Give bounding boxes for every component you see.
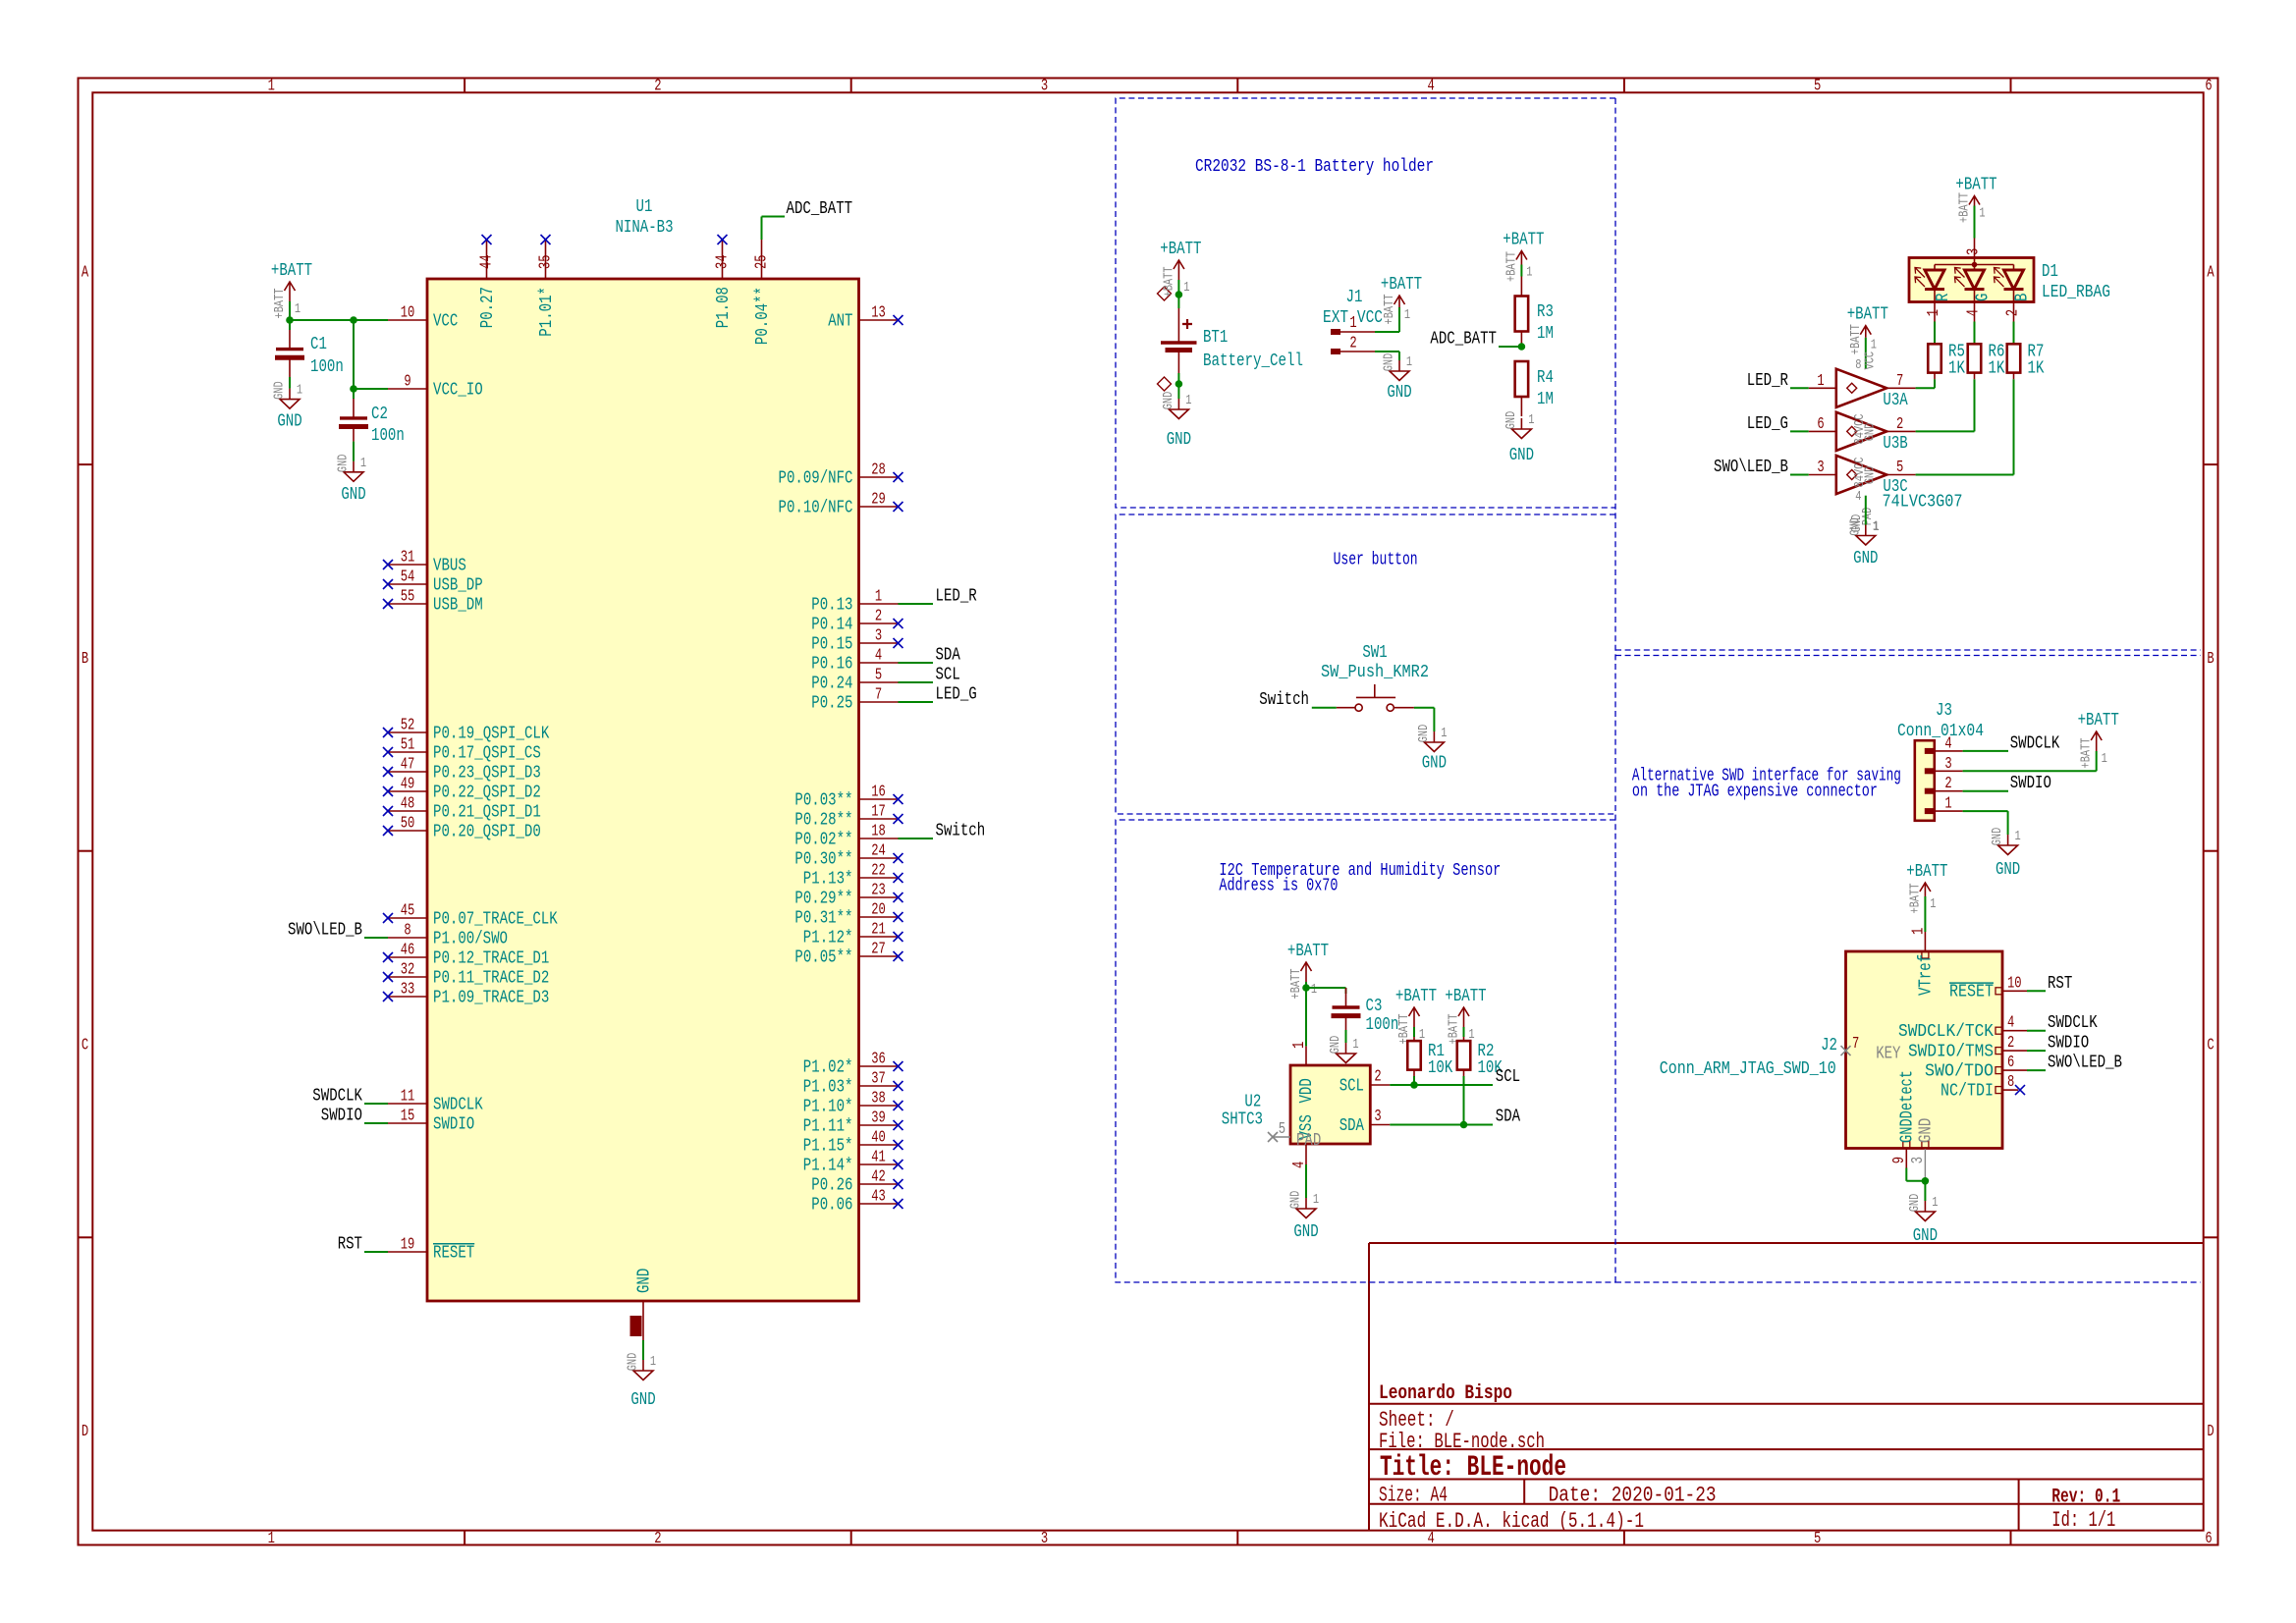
U1 pin 34 P1.08	[713, 235, 734, 328]
svg-text:42: 42	[871, 1167, 886, 1186]
wire C3 to ground	[1345, 1030, 1347, 1043]
svg-text:USB_DM: USB_DM	[433, 594, 483, 615]
ground symbol below U3	[1847, 517, 1879, 568]
U1 pin 16 P0.03**	[794, 783, 902, 811]
ground symbol below C3	[1328, 1036, 1359, 1063]
svg-text:LED_RBAG: LED_RBAG	[2042, 282, 2110, 302]
svg-text:P0.10/NFC: P0.10/NFC	[779, 497, 853, 517]
wire R1 to SCL	[1413, 1076, 1415, 1085]
svg-text:P0.02**: P0.02**	[794, 829, 852, 849]
U2 pin 5 PAD	[1268, 1119, 1321, 1151]
svg-text:1: 1	[2102, 751, 2107, 767]
U1 pin 27 P0.05**	[794, 940, 902, 968]
svg-text:2: 2	[1944, 774, 1951, 792]
wire SWDIO to pin 15	[364, 1122, 388, 1124]
svg-text:3: 3	[1964, 248, 1983, 255]
svg-text:37: 37	[871, 1069, 886, 1088]
svg-text:P1.08: P1.08	[713, 287, 734, 328]
svg-text:VDD: VDD	[1296, 1078, 1317, 1103]
svg-text:39: 39	[871, 1109, 886, 1127]
svg-text:LED_G: LED_G	[936, 684, 977, 705]
svg-text:SWDIO: SWDIO	[321, 1106, 362, 1126]
wire D1 cathode to resistor	[1934, 322, 1936, 345]
U1 pin 23 P0.29**	[794, 881, 902, 909]
svg-text:GND: GND	[1167, 429, 1191, 450]
U1 pin 1 P0.13	[811, 587, 898, 616]
svg-text:1: 1	[1817, 371, 1824, 390]
svg-text:1: 1	[1930, 896, 1936, 912]
wire +BATT to C3	[1306, 987, 1346, 989]
connector J2 Conn_ARM_JTAG_SWD_10 body	[1846, 951, 2003, 1149]
svg-text:ADC_BATT: ADC_BATT	[787, 198, 853, 219]
section box battery holder	[1116, 98, 1615, 508]
capacitor C1	[275, 330, 304, 377]
ground symbol below J2	[1907, 1194, 1939, 1246]
svg-text:GND: GND	[1387, 382, 1411, 403]
wire J3 pin2 SWDIO	[1963, 790, 2008, 792]
svg-text:1: 1	[650, 1354, 656, 1370]
svg-text:C: C	[82, 1036, 88, 1055]
svg-text:1: 1	[297, 383, 302, 399]
svg-text:+BATT: +BATT	[272, 289, 288, 319]
svg-text:R3: R3	[1537, 301, 1554, 322]
svg-text:51: 51	[401, 735, 415, 754]
svg-text:24: 24	[871, 841, 886, 860]
svg-text:G: G	[1973, 294, 1994, 301]
svg-text:D: D	[2207, 1422, 2214, 1440]
resistor R4 1M	[1515, 361, 1529, 416]
wire LED_G to U3B input	[1790, 430, 1809, 432]
J3 pin 4	[1925, 733, 1963, 754]
svg-text:6: 6	[2205, 1529, 2212, 1547]
svg-text:Title: BLE-node: Title: BLE-node	[1380, 1451, 1566, 1484]
U1 pin 24 P0.30**	[794, 841, 902, 870]
U1 pin 46 P0.12_TRACE_D1	[383, 941, 549, 969]
svg-text:5: 5	[1279, 1119, 1285, 1138]
svg-text:R: R	[1933, 294, 1953, 301]
svg-text:GND: GND	[1907, 1194, 1923, 1213]
svg-text:1: 1	[1313, 1192, 1319, 1208]
wire SWDCLK to pin 11	[364, 1103, 388, 1105]
U1 pin 4 P0.16	[811, 646, 898, 675]
svg-text:PAD: PAD	[1296, 1130, 1321, 1151]
svg-text:P1.00/SWO: P1.00/SWO	[433, 928, 508, 948]
svg-text:28: 28	[871, 460, 886, 479]
svg-text:U3A: U3A	[1883, 390, 1908, 410]
wire U1 GND pin to ground	[642, 1340, 644, 1360]
wire +BATT to VCC pin 10	[290, 319, 388, 321]
svg-text:C2: C2	[371, 404, 388, 424]
battery BT1 Battery_Cell	[1158, 287, 1197, 391]
U1 pin 49 P0.22_QSPI_D2	[383, 775, 541, 803]
resistor R7 1K	[2007, 344, 2021, 379]
D1 anode bus	[1935, 264, 2014, 266]
no-connect at J2 pin 8	[2015, 1085, 2025, 1095]
svg-text:3: 3	[1817, 458, 1824, 476]
svg-text:Date: 2020-01-23: Date: 2020-01-23	[1549, 1484, 1717, 1508]
junction at BT1 plus	[1175, 291, 1183, 298]
svg-text:11: 11	[401, 1087, 415, 1106]
svg-text:SWO\LED_B: SWO\LED_B	[288, 920, 362, 941]
U1 pin 47 P0.23_QSPI_D3	[383, 755, 541, 784]
svg-text:1M: 1M	[1537, 389, 1554, 409]
svg-text:100n: 100n	[371, 425, 405, 446]
power +BATT above BT1	[1160, 239, 1201, 298]
D1 LED element R	[1915, 265, 1953, 302]
svg-text:32: 32	[401, 960, 415, 979]
ground symbol below BT1	[1161, 392, 1192, 450]
U1 pin 15 SWDIO	[388, 1107, 474, 1135]
wire ADC_BATT from U1 pin 25	[761, 217, 763, 241]
J2 pin 7 KEY	[1841, 1034, 1901, 1063]
svg-text:6: 6	[2205, 77, 2212, 95]
wire VCC_IO junction to pin 9	[354, 388, 388, 390]
svg-text:6: 6	[2007, 1053, 2014, 1071]
wire C2 branch down	[353, 320, 355, 389]
svg-text:KEY: KEY	[1876, 1043, 1900, 1063]
svg-text:SW_Push_KMR2: SW_Push_KMR2	[1321, 662, 1429, 682]
svg-text:+BATT: +BATT	[1288, 969, 1304, 1000]
resistor R6 1K	[1968, 344, 1982, 379]
U1 pin 42 P0.26	[811, 1167, 902, 1196]
svg-text:RESET: RESET	[1949, 982, 1994, 1002]
U1 pin 25 P0.04**	[752, 240, 773, 345]
svg-text:1: 1	[360, 456, 366, 471]
section box user button	[1116, 514, 1615, 814]
svg-text:48: 48	[401, 794, 415, 813]
junction ADC_BATT divider	[1518, 343, 1526, 351]
J2 pin 9 GNDDetect	[1889, 1070, 1918, 1168]
svg-text:8: 8	[1855, 357, 1861, 373]
svg-text:+BATT: +BATT	[2078, 710, 2119, 730]
power +BATT above U2	[1287, 941, 1329, 1000]
svg-text:1: 1	[1441, 726, 1447, 741]
U1 pin 3 P0.15	[811, 626, 902, 655]
U1 pin 19 RESET	[388, 1235, 474, 1264]
U1 pin 38 P1.10*	[803, 1089, 903, 1117]
ground symbol below U1	[626, 1353, 657, 1410]
U1 pin 10 VCC	[388, 303, 458, 332]
svg-text:A: A	[2207, 262, 2214, 281]
ic U1 NINA-B3 body	[427, 279, 859, 1301]
svg-text:+BATT: +BATT	[1395, 986, 1437, 1006]
buffer U3A 74LVC3G07	[1809, 369, 1916, 410]
svg-text:10: 10	[2007, 973, 2022, 992]
D1 cathode pin 4	[1964, 302, 1983, 322]
wire U3 hidden GND pin 4	[1865, 496, 1867, 525]
svg-text:5: 5	[875, 666, 882, 684]
capacitor C3	[1332, 988, 1361, 1030]
ground symbol below J3	[1990, 828, 2021, 880]
wire SDA from U1	[899, 662, 934, 664]
svg-text:SWDIO/TMS: SWDIO/TMS	[1908, 1041, 1994, 1061]
svg-text:+BATT: +BATT	[1907, 884, 1923, 914]
svg-text:5: 5	[1896, 458, 1903, 476]
svg-text:+BATT: +BATT	[1445, 986, 1486, 1006]
svg-text:CR2032 BS-8-1 Battery holder: CR2032 BS-8-1 Battery holder	[1195, 156, 1434, 177]
svg-text:SHTC3: SHTC3	[1222, 1109, 1263, 1130]
svg-text:GND: GND	[1995, 859, 2020, 880]
svg-text:ANT: ANT	[828, 310, 852, 331]
svg-text:1: 1	[1944, 794, 1951, 813]
svg-text:+BATT: +BATT	[1382, 295, 1397, 325]
power +BATT above R3	[1503, 230, 1544, 283]
svg-text:GND: GND	[336, 454, 352, 472]
wire SCL bus	[1390, 1084, 1493, 1086]
svg-text:3: 3	[875, 626, 882, 645]
svg-text:GND: GND	[1853, 548, 1878, 568]
svg-text:4: 4	[1944, 733, 1951, 752]
svg-text:P0.19_QSPI_CLK: P0.19_QSPI_CLK	[433, 723, 550, 743]
J3 pin 3	[1925, 754, 1963, 775]
svg-text:55: 55	[401, 587, 415, 606]
power +BATT above D1	[1955, 175, 1996, 239]
U1 pin 20 P0.31**	[794, 900, 902, 929]
wire J3 pin3 to +BATT	[1963, 770, 2097, 772]
resistor R3 1M	[1515, 277, 1529, 348]
wire BT1 plus to +BATT	[1177, 280, 1179, 308]
svg-text:+BATT: +BATT	[1396, 1014, 1412, 1045]
U1 pin 35 P1.01*	[536, 235, 557, 337]
svg-text:1: 1	[268, 77, 275, 95]
U1 pin 7 P0.25	[811, 685, 898, 714]
svg-text:J3: J3	[1936, 700, 1952, 721]
svg-text:1: 1	[268, 1529, 275, 1547]
resistor R5 1K	[1928, 344, 1941, 379]
svg-text:SWDCLK: SWDCLK	[2010, 732, 2060, 753]
section divider LED box bottom	[1615, 649, 2201, 651]
svg-text:SWDIO: SWDIO	[2048, 1033, 2089, 1054]
svg-text:LED_R: LED_R	[936, 586, 977, 607]
svg-text:+BATT: +BATT	[1161, 267, 1176, 298]
svg-text:B: B	[2207, 649, 2214, 668]
svg-text:P0.06: P0.06	[811, 1194, 852, 1215]
svg-text:+BATT: +BATT	[1955, 175, 1996, 195]
svg-text:1: 1	[1526, 265, 1532, 281]
svg-text:GND: GND	[1422, 753, 1447, 774]
svg-text:GND: GND	[1161, 392, 1176, 410]
svg-text:2: 2	[654, 77, 661, 95]
svg-text:35: 35	[536, 254, 555, 269]
svg-text:4: 4	[1964, 309, 1983, 316]
svg-text:GND: GND	[1416, 725, 1432, 743]
svg-text:SWDCLK/TCK: SWDCLK/TCK	[1898, 1021, 1995, 1042]
svg-text:36: 36	[871, 1050, 886, 1068]
J2 pin 1 VTref	[1908, 928, 1936, 996]
svg-text:9: 9	[404, 372, 410, 391]
svg-text:VTref: VTref	[1916, 954, 1937, 996]
svg-text:P1.14*: P1.14*	[803, 1155, 853, 1175]
svg-text:1: 1	[1932, 1195, 1938, 1211]
ground symbol below C1	[272, 381, 303, 431]
svg-text:on the JTAG expensive connecto: on the JTAG expensive connector	[1632, 782, 1878, 802]
svg-text:GND: GND	[272, 381, 288, 400]
svg-text:P0.03**: P0.03**	[794, 789, 852, 810]
U1 pin 11 SWDCLK	[388, 1087, 483, 1115]
svg-text:Conn_01x04: Conn_01x04	[1897, 721, 1984, 741]
svg-text:23: 23	[871, 881, 886, 899]
svg-text:100n: 100n	[1366, 1014, 1399, 1035]
J2 pin 3 GND hidden	[1908, 1118, 1937, 1181]
ground symbol below C2	[336, 454, 367, 504]
svg-text:+BATT: +BATT	[1447, 1014, 1462, 1045]
svg-text:NINA-B3: NINA-B3	[615, 217, 673, 238]
wire J2 pin9 to ground	[1905, 1168, 1907, 1181]
svg-text:7: 7	[1852, 1034, 1859, 1053]
ground symbol below SW1	[1416, 725, 1448, 774]
svg-text:4: 4	[1427, 77, 1434, 95]
U1 pin 43 P0.06	[811, 1187, 902, 1216]
svg-text:P0.20_QSPI_D0: P0.20_QSPI_D0	[433, 821, 541, 841]
J2 pin 10 RESET	[1949, 973, 2027, 1001]
svg-text:P1.03*: P1.03*	[803, 1076, 853, 1097]
svg-text:GND: GND	[1288, 1191, 1304, 1210]
J3 pin 2	[1925, 774, 1963, 794]
svg-text:Switch: Switch	[1259, 689, 1309, 710]
svg-text:SDA: SDA	[1496, 1107, 1521, 1127]
svg-text:1: 1	[2015, 829, 2021, 844]
power +BATT at J1	[1381, 274, 1422, 325]
J2 pin 4 SWDCLK/TCK	[1898, 1013, 2027, 1042]
svg-text:SWDIO: SWDIO	[2010, 773, 2051, 793]
svg-text:C1: C1	[310, 334, 327, 354]
svg-text:P0.12_TRACE_D1: P0.12_TRACE_D1	[433, 947, 549, 968]
resistor R1 10K	[1407, 1027, 1421, 1076]
svg-text:GND: GND	[1328, 1036, 1343, 1055]
svg-text:40: 40	[871, 1128, 886, 1147]
svg-text:SW1: SW1	[1362, 642, 1387, 663]
svg-text:+BATT: +BATT	[1847, 304, 1888, 325]
wire U3B output to R6	[1916, 430, 1975, 432]
svg-text:P0.25: P0.25	[811, 692, 852, 713]
ground symbol below U2	[1288, 1191, 1320, 1242]
wire ADC_BATT label to divider	[1499, 346, 1521, 348]
svg-text:VBUS: VBUS	[433, 555, 466, 575]
svg-text:3: 3	[1041, 1529, 1048, 1547]
svg-text:15: 15	[401, 1107, 415, 1125]
svg-text:1: 1	[1924, 309, 1942, 316]
svg-text:3: 3	[1374, 1107, 1381, 1125]
U1 pin 41 P1.14*	[803, 1148, 903, 1176]
wire R2 to SDA	[1463, 1076, 1465, 1125]
wire J3 pin4 SWDCLK	[1963, 750, 2008, 752]
svg-text:6: 6	[1817, 414, 1824, 433]
svg-text:1: 1	[295, 301, 301, 317]
svg-text:+BATT: +BATT	[1906, 861, 1947, 882]
U1 pin 54 USB_DP	[383, 568, 483, 596]
svg-text:P0.17_QSPI_CS: P0.17_QSPI_CS	[433, 742, 541, 763]
svg-text:2: 2	[2003, 309, 2022, 316]
svg-text:3: 3	[1041, 77, 1048, 95]
U1 pin 37 P1.03*	[803, 1069, 903, 1098]
svg-text:SWO\LED_B: SWO\LED_B	[1714, 457, 1788, 477]
U1 pin 28 P0.09/NFC	[779, 460, 903, 489]
svg-text:Battery_Cell: Battery_Cell	[1203, 351, 1303, 371]
svg-text:RST: RST	[338, 1234, 362, 1255]
svg-text:45: 45	[401, 901, 415, 920]
capacitor C2	[339, 399, 368, 442]
svg-text:LED_R: LED_R	[1747, 370, 1788, 391]
svg-text:2: 2	[875, 607, 882, 625]
svg-text:1: 1	[1419, 1027, 1425, 1043]
svg-text:1: 1	[1311, 982, 1317, 998]
wire SCL from U1	[899, 681, 934, 683]
U1 pin 33 P1.09_TRACE_D3	[383, 980, 549, 1008]
svg-text:7: 7	[1896, 371, 1903, 390]
svg-text:SDA: SDA	[1339, 1115, 1365, 1136]
svg-text:GND: GND	[630, 1389, 655, 1410]
svg-text:P1.11*: P1.11*	[803, 1115, 853, 1136]
connector J3 Conn_01x04 body	[1915, 740, 1935, 821]
svg-text:GND: GND	[1916, 1118, 1937, 1143]
svg-text:9: 9	[1889, 1157, 1908, 1163]
svg-text:GND: GND	[1293, 1221, 1318, 1242]
U1 pin 52 P0.19_QSPI_CLK	[383, 716, 550, 744]
J2 pin 6 SWO/TDO	[1925, 1053, 2027, 1081]
svg-text:P0.29**: P0.29**	[794, 888, 852, 908]
svg-text:SWDCLK: SWDCLK	[312, 1086, 362, 1107]
wire SWO\LED_B to pin 8	[364, 937, 388, 939]
svg-text:1: 1	[1352, 1037, 1358, 1053]
svg-text:29: 29	[871, 490, 886, 509]
svg-text:1: 1	[1185, 393, 1191, 408]
svg-text:1K: 1K	[2028, 358, 2046, 379]
wire SWO\LED_B at J2	[2027, 1069, 2046, 1071]
power +BATT at J3	[2078, 710, 2119, 769]
junction at C2 top	[350, 316, 357, 324]
svg-text:GND: GND	[633, 1269, 654, 1293]
svg-text:LED_G: LED_G	[1747, 413, 1788, 434]
power +BATT above U3A hidden VCC pin 8	[1847, 304, 1888, 369]
svg-text:4: 4	[2007, 1013, 2014, 1032]
svg-text:SCL: SCL	[1339, 1075, 1364, 1096]
svg-text:50: 50	[401, 814, 415, 833]
ground symbol below J1	[1382, 353, 1413, 403]
svg-text:A: A	[82, 262, 88, 281]
svg-text:P1.12*: P1.12*	[803, 927, 853, 947]
svg-text:P0.27: P0.27	[477, 287, 498, 328]
wire D1 cathode to resistor	[1974, 322, 1976, 345]
svg-text:1: 1	[1871, 338, 1877, 353]
svg-text:SCL: SCL	[936, 665, 960, 685]
svg-text:+BATT: +BATT	[1848, 324, 1864, 354]
svg-text:GND: GND	[1863, 466, 1879, 485]
svg-text:J2: J2	[1821, 1035, 1837, 1055]
wire RST at J2	[2027, 990, 2046, 992]
svg-text:49: 49	[401, 775, 415, 793]
wire Switch label to SW1	[1312, 707, 1337, 709]
U1 pin 44 P0.27	[477, 235, 498, 328]
svg-text:P0.31**: P0.31**	[794, 907, 852, 928]
wire LED_G from U1	[899, 701, 934, 703]
svg-text:R4: R4	[1537, 367, 1554, 388]
svg-text:2: 2	[1896, 414, 1903, 433]
svg-text:VCC: VCC	[1863, 352, 1879, 370]
svg-text:BT1: BT1	[1203, 327, 1228, 348]
svg-text:SWDCLK: SWDCLK	[433, 1094, 483, 1114]
svg-text:P0.15: P0.15	[811, 633, 852, 654]
svg-text:1K: 1K	[1948, 358, 1966, 379]
wire SWDCLK at J2	[2027, 1030, 2046, 1032]
svg-text:RST: RST	[2048, 973, 2072, 994]
svg-text:GND: GND	[1863, 423, 1879, 442]
svg-text:P0.26: P0.26	[811, 1174, 852, 1195]
svg-text:1K: 1K	[1989, 358, 2006, 379]
svg-text:GND: GND	[1913, 1225, 1938, 1246]
wire SW1 to ground	[1414, 707, 1435, 709]
svg-text:P1.15*: P1.15*	[803, 1135, 853, 1156]
svg-text:Conn_ARM_JTAG_SWD_10: Conn_ARM_JTAG_SWD_10	[1660, 1058, 1836, 1079]
